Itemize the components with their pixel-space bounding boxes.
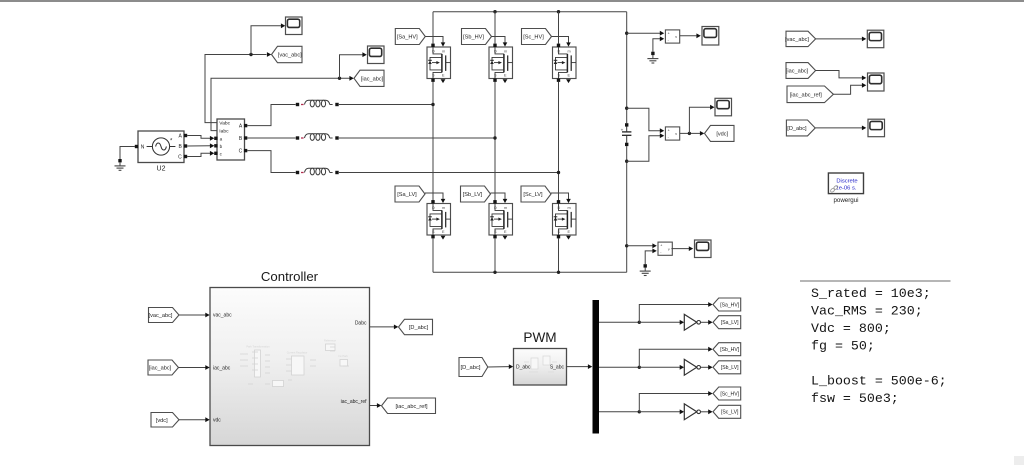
svg-text:[Sb_HV]: [Sb_HV] [720, 347, 740, 353]
arrowhead [Sb_LV] [708, 365, 712, 370]
wire vac_abc to controller [179, 314, 206, 316]
arrowhead [Sb_HV] [708, 347, 712, 352]
wire Iabc signal [211, 78, 350, 130]
wire meas C to inductor Lc [247, 151, 295, 173]
wire top bus drop leg A [432, 12, 434, 44]
Goto tag [vdc] (T3) [705, 125, 735, 141]
wire NOT out a [701, 321, 709, 323]
wire iac_abc_ref to scope7 [833, 85, 862, 94]
svg-text:PWM: PWM [523, 330, 556, 345]
svg-text:Inv Park: Inv Park [338, 354, 348, 358]
Goto tag [Sb_HV] (G[Sb_HV]) [713, 343, 741, 356]
svg-text:S_rated = 10e3;: S_rated = 10e3; [811, 286, 931, 301]
svg-text:+: + [660, 244, 662, 248]
Goto tag [Sb_LV] (G[Sb_LV]) [713, 361, 741, 374]
ground G1 under U2 [115, 159, 126, 170]
arrowhead NOT c [680, 409, 684, 414]
wire top bus drop leg B [494, 12, 496, 44]
wire gate wire to Q6 (Sc_LV) [551, 193, 569, 199]
svg-text:Vdc = 800;: Vdc = 800; [811, 321, 891, 336]
arrowhead goto D_abc [394, 325, 398, 330]
svg-text:[Sc_LV]: [Sc_LV] [523, 192, 543, 198]
svg-text:v: v [668, 247, 670, 251]
wire ground to meas1 - [653, 39, 660, 52]
Goto tag [iac_abc] (T2) [354, 70, 384, 86]
wire gate wire to Q2 (Sb_HV) [492, 37, 506, 43]
three-phase V-I measurement block [214, 119, 247, 160]
svg-text:+: + [668, 32, 670, 36]
arrowhead scope7 in2 [862, 83, 866, 88]
Controller subsystem block [210, 288, 370, 446]
arrowhead meas c [210, 151, 214, 156]
svg-text:fsw = 50e3;: fsw = 50e3; [811, 391, 899, 406]
svg-text:+: + [621, 127, 624, 132]
arrowhead scope7 in1 [862, 76, 866, 81]
wire DC+ top bus [433, 11, 627, 13]
arrowhead meas a [210, 136, 214, 141]
wire demux out b [599, 366, 639, 368]
arrowhead [Sc_HV] [708, 391, 712, 396]
wire vdc to controller [179, 419, 206, 421]
svg-text:[vdc]: [vdc] [716, 131, 728, 137]
wire vdc to scope [689, 107, 710, 133]
inductor La (phase A boost inductor) [296, 100, 339, 107]
wire U2 C to meas c [187, 153, 210, 156]
wire DC+ rail down [626, 12, 628, 123]
arrowhead scope5 [689, 246, 693, 251]
From tag [Sb_HV] (F2) [462, 29, 492, 45]
From tag [vdc] (T6) [151, 413, 179, 428]
node junction DC+ to vmeas [625, 107, 628, 110]
arrowhead gate Q2 (Sb_HV) [503, 42, 508, 46]
arrowhead PWM in [509, 364, 513, 369]
svg-text:Vabc: Vabc [219, 121, 230, 127]
arrowhead scope vdc [710, 105, 714, 110]
powergui block [828, 173, 863, 194]
From tag [D_abc] (T10) [786, 120, 815, 136]
wire phase leg B mid [494, 82, 496, 202]
wire top rail to meas1 [627, 32, 661, 34]
svg-text:Park Transformation: Park Transformation [246, 345, 270, 349]
Goto tag [Sa_HV] (G[Sa_HV]) [713, 298, 741, 311]
From tag [Sa_HV] (F1) [395, 29, 425, 45]
NOT gate NOT3 [684, 404, 700, 420]
arrowhead NOT b [680, 365, 684, 370]
svg-text:D: D [494, 49, 497, 53]
svg-text:a: a [220, 136, 223, 141]
wire vac_abc to scope6 [816, 38, 862, 40]
wire Iabc to scope2 [340, 55, 363, 79]
wire branch to [Sa_HV] [639, 305, 709, 323]
svg-text:vdc: vdc [213, 418, 221, 424]
voltage measurement block V- measurement [658, 242, 672, 255]
wire Vdc meas output [680, 132, 701, 134]
svg-text:D: D [558, 206, 561, 210]
arrowhead goto iac_abc_ref [377, 403, 381, 408]
inductor Lc (phase C boost inductor) [296, 168, 339, 175]
wire to NOT gate a [639, 321, 680, 323]
arrowhead scope6 [862, 37, 866, 42]
svg-text:Controller: Controller [261, 269, 319, 284]
node junction DC- to vmeas [625, 160, 628, 163]
svg-text:L_boost = 500e-6;: L_boost = 500e-6; [811, 374, 947, 389]
svg-text:iac_abc_ref: iac_abc_ref [341, 399, 367, 405]
arrowhead scope1 [281, 23, 285, 28]
svg-text:[D_abc]: [D_abc] [409, 325, 429, 331]
From tag [Sb_LV] (F5) [461, 186, 491, 202]
node junction top rail meas [625, 32, 628, 35]
scope Scope vac_abc (right) [867, 30, 884, 48]
wire meas1 to scope3 [680, 35, 697, 37]
svg-text:+: + [668, 129, 670, 133]
node junction phase C [557, 171, 560, 174]
NOT gate NOT1 [684, 314, 700, 330]
svg-text:[Sb_LV]: [Sb_LV] [721, 365, 739, 371]
node junction phase A [431, 103, 434, 106]
arrowhead meas2 + [652, 243, 656, 248]
arrowhead vdc meas + [660, 128, 664, 133]
ground G3 bottom-right [640, 264, 651, 275]
arrowhead meas b [210, 143, 214, 148]
wire meas B to inductor Lb [247, 137, 295, 139]
Goto tag [Sa_LV] (G[Sa_LV]) [713, 316, 741, 329]
wire bottom rail to meas2 [627, 245, 653, 247]
svg-text:[Sc_HV]: [Sc_HV] [720, 391, 739, 397]
scope Scope V- [695, 240, 712, 258]
wire PWM to demux [567, 366, 589, 368]
wire to NOT gate c [639, 411, 680, 413]
wire meas A to inductor La [247, 105, 295, 126]
svg-text:v: v [675, 35, 677, 39]
wire leg C to bottom bus [558, 238, 560, 272]
annotation divider line [800, 280, 951, 282]
wire leg A to bottom bus [432, 238, 434, 272]
arrowhead [Sa_HV] [708, 302, 712, 307]
svg-text:[vac_abc]: [vac_abc] [278, 53, 302, 59]
arrowhead meas1 + [660, 31, 664, 36]
svg-text:[vac_abc]: [vac_abc] [149, 313, 173, 319]
arrowhead controller in3 [205, 417, 209, 422]
wire gate wire to Q1 (Sa_HV) [425, 37, 443, 43]
scope Scope Vdc [715, 98, 732, 116]
arrowhead gate Q5 (Sb_LV) [503, 199, 508, 203]
scope Scope iac compare (right) [868, 73, 885, 91]
wire Vabc signal [205, 55, 267, 123]
svg-text:[Sa_HV]: [Sa_HV] [720, 302, 740, 308]
svg-text:Dabc: Dabc [355, 320, 367, 326]
PWM subsystem block [514, 349, 567, 386]
wire to NOT gate b [639, 366, 680, 368]
From tag [Sa_LV] (F4) [395, 186, 425, 202]
svg-text:1e-06 s.: 1e-06 s. [836, 186, 857, 192]
svg-text:S_abc: S_abc [550, 365, 565, 371]
svg-text:iac_abc: iac_abc [213, 366, 231, 372]
NOT gate NOT2 [684, 359, 700, 375]
annotation parameter text [811, 286, 947, 406]
node junction vdc signal [688, 132, 691, 135]
svg-text:m: m [568, 206, 571, 210]
voltage measurement block Vdc measurement [665, 127, 679, 140]
capacitor C1 (DC link) [621, 123, 632, 146]
wire gate wire to Q5 (Sb_LV) [491, 193, 506, 199]
MOSFET Q3 (Sc_HV) [553, 44, 577, 84]
svg-text:[Sa_LV]: [Sa_LV] [721, 320, 739, 326]
wire branch to [Sb_HV] [639, 349, 709, 367]
svg-text:[vac_abc]: [vac_abc] [785, 37, 809, 43]
svg-text:D: D [432, 49, 435, 53]
wire top bus drop leg C [558, 12, 560, 44]
wire leg B to bottom bus [494, 238, 496, 272]
wire DC- bottom bus [433, 271, 627, 273]
node junction Iabc branch [338, 77, 341, 80]
voltage measurement block V+ measurement [665, 30, 679, 43]
wire controller iac_ref out [370, 405, 378, 407]
node junction gate c [638, 410, 641, 413]
arrowhead scope2 [362, 52, 366, 57]
wire meas2 to scope5 [671, 248, 689, 250]
wire controller Dabc out [370, 326, 395, 328]
wire DC- rail up [626, 146, 628, 272]
wire Vabc to scope1 [251, 26, 281, 55]
Goto tag [Sc_HV] (G[Sc_HV]) [713, 387, 741, 400]
From tag [vac_abc] (T4) [149, 308, 180, 323]
From tag [iac_abc_ref] (T9) [787, 86, 833, 103]
svg-text:[iac_abc_ref]: [iac_abc_ref] [790, 92, 822, 98]
svg-text:[iac_abc_ref]: [iac_abc_ref] [395, 404, 427, 410]
wire D_abc to scope8 [815, 127, 862, 129]
demux (signal splitter bar) [593, 300, 600, 434]
svg-text:Iabc: Iabc [219, 129, 229, 135]
svg-text:[D_abc]: [D_abc] [787, 126, 807, 132]
arrowhead NOT a [680, 320, 684, 325]
arrowhead goto vdc [700, 131, 704, 136]
arrowhead vdc meas - [660, 133, 664, 138]
svg-text:[Sb_LV]: [Sb_LV] [463, 192, 483, 198]
svg-text:Current Regulator: Current Regulator [287, 351, 308, 355]
svg-text:D: D [432, 206, 435, 210]
svg-text:N: N [141, 145, 145, 151]
wire iac_abc to controller [179, 367, 206, 369]
svg-text:Discrete: Discrete [836, 178, 857, 184]
arrowhead scope8 [862, 126, 866, 131]
Goto tag [iac_abc_ref] (G_ref) [382, 398, 436, 414]
From tag [Sc_LV] (F6) [521, 186, 551, 202]
svg-text:[Sa_LV]: [Sa_LV] [397, 192, 417, 198]
scope Scope V+ [702, 27, 719, 46]
scope Scope D_abc (right) [868, 119, 885, 137]
From tag [iac_abc] (T5) [148, 360, 179, 375]
svg-text:m: m [442, 206, 445, 210]
svg-text:[D_abc]: [D_abc] [461, 365, 481, 371]
MOSFET Q2 (Sb_HV) [489, 44, 513, 84]
MOSFET Q1 (Sa_HV) [427, 44, 451, 84]
svg-text:[Sc_LV]: [Sc_LV] [721, 410, 739, 416]
arrowhead meas2 - [652, 249, 656, 254]
svg-text:fg = 50;: fg = 50; [811, 339, 875, 354]
wire Lb to leg B [339, 137, 495, 139]
wire demux out a [599, 321, 639, 323]
wire iac_abc to scope7 [816, 71, 862, 78]
wire DC+ to Vdc meas [627, 108, 661, 131]
arrowhead meas1 - [660, 36, 664, 41]
scope Scope iac (top) [368, 46, 385, 64]
wire NOT out b [701, 366, 709, 368]
arrowhead goto vac_abc [267, 52, 271, 57]
node junction gate a [638, 321, 641, 324]
svg-text:Reference: Reference [324, 339, 337, 343]
svg-text:m: m [504, 49, 507, 53]
node junction bottom rail meas [625, 244, 628, 247]
svg-text:D: D [558, 49, 561, 53]
svg-text:C: C [178, 155, 182, 161]
arrowhead gate Q6 (Sc_LV) [566, 199, 571, 203]
scrollbar corner [1014, 456, 1024, 465]
svg-text:m: m [504, 206, 507, 210]
node junction gate b [638, 366, 641, 369]
node junction top bus leg B [493, 10, 496, 13]
Goto tag [D_abc] (G_D) [399, 319, 433, 334]
arrowhead gate Q1 (Sa_HV) [441, 42, 446, 46]
svg-text:C: C [239, 149, 243, 155]
arrowhead demux in [588, 364, 592, 369]
arrowhead gate Q3 (Sc_HV) [566, 42, 571, 46]
arrowhead controller in1 [205, 313, 209, 318]
svg-text:[Sb_HV]: [Sb_HV] [463, 35, 484, 41]
node junction bottom bus leg B [493, 271, 496, 274]
svg-text:[Sc_HV]: [Sc_HV] [523, 35, 544, 41]
arrowhead gate Q4 (Sa_LV) [441, 199, 446, 203]
wire Lc to leg C [339, 172, 559, 174]
model window top border [0, 0, 1024, 1]
wire gate wire to Q4 (Sa_LV) [425, 193, 443, 199]
arrowhead [Sc_LV] [708, 409, 712, 414]
wire La to leg A [339, 104, 433, 106]
wire ground to meas2 - [645, 251, 653, 264]
svg-text:D_abc: D_abc [516, 365, 531, 371]
scope Scope vac (top-left) [286, 17, 303, 35]
MOSFET Q5 (Sb_LV) [489, 200, 513, 240]
svg-text:b: b [220, 144, 223, 149]
wire phase leg C mid [558, 82, 560, 202]
wire NOT out c [701, 411, 709, 413]
svg-text:m: m [442, 49, 445, 53]
svg-text:[Sa_HV]: [Sa_HV] [397, 35, 418, 41]
wire D_abc to PWM [488, 366, 510, 368]
inductor Lb (phase B boost inductor) [296, 134, 339, 141]
svg-text:powergui: powergui [833, 197, 858, 204]
svg-text:U2: U2 [157, 166, 166, 173]
svg-text:v: v [675, 132, 677, 136]
From tag [vac_abc] (T7) [785, 31, 816, 46]
Goto tag [Sc_LV] (G[Sc_LV]) [713, 405, 741, 418]
wire U2 B to meas b [187, 145, 210, 147]
node junction top bus leg C [557, 10, 560, 13]
node junction phase B [493, 136, 496, 139]
wire U2 A to meas a [187, 136, 210, 139]
arrowhead goto iac_abc [349, 76, 353, 81]
node junction Vabc branch [249, 53, 252, 56]
arrowhead controller in2 [205, 365, 209, 370]
wire demux out c [599, 411, 639, 413]
node junction bottom bus leg C [557, 271, 560, 274]
svg-text:[iac_abc]: [iac_abc] [361, 76, 384, 82]
Goto tag [vac_abc] (T1) [272, 46, 303, 62]
From tag [Sc_HV] (F3) [522, 29, 552, 45]
ground G2 top-right [647, 52, 658, 63]
From tag [D_abc] (T11) [459, 358, 488, 377]
wire gate wire to Q3 (Sc_HV) [552, 37, 569, 43]
arrowhead scope3 [696, 33, 700, 38]
wire branch to [Sc_HV] [639, 394, 709, 412]
wire DC- to Vdc meas [627, 136, 661, 162]
From tag [iac_abc] (T8) [786, 63, 816, 79]
wire U2 N to ground [120, 147, 135, 160]
svg-text:[vdc]: [vdc] [156, 418, 168, 424]
wire phase leg A mid [432, 82, 434, 202]
arrowhead [Sa_LV] [708, 320, 712, 325]
svg-text:Vac_RMS = 230;: Vac_RMS = 230; [811, 304, 923, 319]
svg-text:vac_abc: vac_abc [213, 313, 232, 319]
svg-text:[iac_abc]: [iac_abc] [149, 366, 172, 372]
svg-text:m: m [568, 49, 571, 53]
MOSFET Q4 (Sa_LV) [427, 200, 451, 240]
MOSFET Q6 (Sc_LV) [553, 200, 577, 240]
three-phase source U2 [135, 131, 187, 163]
svg-text:[iac_abc]: [iac_abc] [786, 69, 809, 75]
svg-text:D: D [494, 206, 497, 210]
